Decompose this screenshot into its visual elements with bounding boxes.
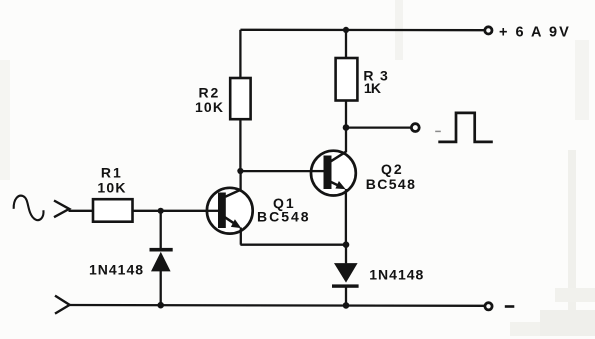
wire Q1 emitter down <box>240 228 242 245</box>
wire R1 to node A <box>133 210 161 212</box>
input signal arrow terminal <box>54 201 69 218</box>
negative rail wire <box>69 304 485 307</box>
positive supply terminal circle <box>485 27 492 34</box>
svg-text:1N4148: 1N4148 <box>89 262 144 278</box>
wire node A to Q1 base <box>161 210 219 212</box>
minus label dash <box>505 305 515 308</box>
resistor R2 <box>230 78 250 119</box>
diode D1 1N4148 (anode down, cathode up) <box>150 211 173 306</box>
node C junction emitters/D2 <box>343 241 350 248</box>
wire top rail to R2 <box>239 30 241 78</box>
junction dot D1 / negative rail <box>157 302 164 309</box>
wire node E to Q2 collector <box>345 128 347 153</box>
node B junction R2/Q1-collector/Q2-base <box>237 168 243 174</box>
svg-text:10K: 10K <box>195 99 224 115</box>
wire node B to Q2 base <box>240 170 324 172</box>
wire Q2 emitter down to node C <box>345 189 347 245</box>
transistor Q1 BC548 <box>206 188 253 234</box>
resistor R1 <box>93 199 133 222</box>
node F junction D2 / negative rail <box>343 302 350 309</box>
node E junction R3/Q2-collector/output <box>343 124 350 131</box>
node D junction top rail / R3 <box>343 27 349 33</box>
wire node E to output terminal <box>346 126 412 128</box>
svg-text:1K: 1K <box>364 80 381 96</box>
wire node D to R3 <box>345 30 347 58</box>
svg-text:1N4148: 1N4148 <box>369 266 424 282</box>
svg-text:R1: R1 <box>101 165 123 181</box>
wire R2 to node B <box>239 119 241 171</box>
wire R3 to node E <box>345 101 347 128</box>
svg-text:BC548: BC548 <box>366 176 417 192</box>
negative input arrow terminal <box>55 296 70 314</box>
wire input arrow to R1 <box>69 210 94 212</box>
sine wave input symbol <box>14 196 44 220</box>
output terminal circle <box>411 124 419 132</box>
square pulse output symbol <box>438 113 493 142</box>
svg-text:+ 6 A 9V: + 6 A 9V <box>499 24 571 40</box>
small stray dash left of pulse <box>435 130 441 132</box>
negative output terminal circle <box>485 303 492 310</box>
resistor R3 <box>336 58 358 101</box>
wire Q1 collector to node B <box>239 171 241 190</box>
svg-text:10K: 10K <box>97 180 126 196</box>
diode D2 1N4148 (anode up, cathode down) <box>332 245 359 306</box>
transistor Q2 BC548 <box>310 151 356 196</box>
svg-text:BC548: BC548 <box>257 209 311 225</box>
node A junction R1/D1/Q1-base <box>158 208 164 214</box>
svg-text:Q2: Q2 <box>381 161 404 177</box>
wire emitter bus Q1 to node C <box>240 244 346 246</box>
top rail +V wire <box>240 29 484 32</box>
